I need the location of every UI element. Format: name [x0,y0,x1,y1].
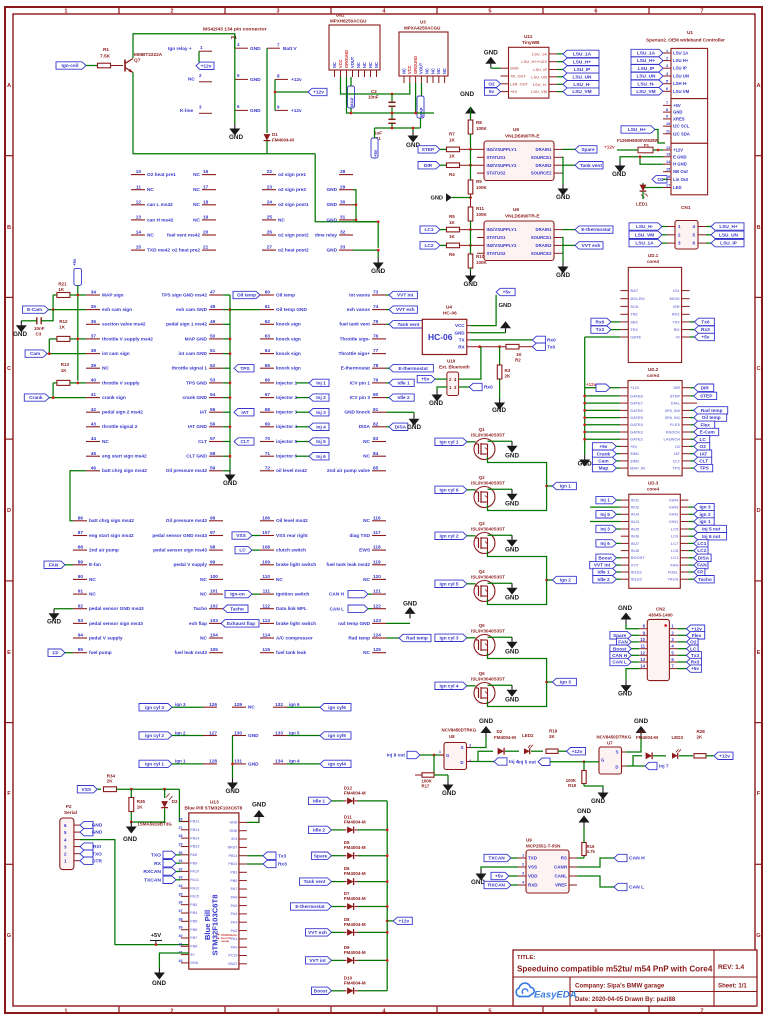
svg-text:Inj 5 out: Inj 5 out [518,760,537,766]
svg-text:Ign relay +: Ign relay + [168,46,192,52]
flag DIR [418,162,440,169]
svg-text:Q6: Q6 [479,671,486,676]
svg-text:NRST: NRST [228,846,239,850]
svg-text:NC: NC [363,439,370,445]
wires U6 sources to gnd [562,238,563,263]
svg-text:Blue Pill STM32F103C6T8: Blue Pill STM32F103C6T8 [185,806,243,812]
svg-text:Ign-coil: Ign-coil [62,63,79,69]
svg-text:2: 2 [170,1008,173,1014]
svg-text:EasyEDA: EasyEDA [534,990,577,1001]
svg-text:UD.3: UD.3 [648,481,659,486]
svg-text:ISL9V3040S3ST: ISL9V3040S3ST [471,629,505,634]
svg-text:TX0: TX0 [672,319,680,324]
svg-text:E-thermostat: E-thermostat [581,227,611,233]
svg-text:PB12: PB12 [190,820,199,824]
svg-text:Lin Out: Lin Out [673,177,689,182]
svg-text:CLT: CLT [198,439,207,445]
svg-text:RXCAN: RXCAN [488,883,505,889]
svg-text:GND: GND [505,501,519,508]
wire R21 left leg [52,295,54,310]
svg-text:LSU_VM: LSU_VM [531,89,548,94]
title block [513,950,757,1006]
svg-text:PB10: PB10 [228,862,237,866]
ground R3 [499,398,501,403]
svg-text:O2: O2 [488,81,495,87]
svg-text:BOOST: BOOST [631,555,646,560]
svg-text:17: 17 [666,183,670,187]
svg-text:LSU 1A: LSU 1A [673,51,688,56]
svg-text:Cam: Cam [598,459,608,465]
svg-text:Tx3: Tx3 [278,853,287,859]
svg-text:GND: GND [248,761,259,767]
svg-text:SE0: SE0 [630,319,638,324]
svg-text:ISL9V3040S3ST: ISL9V3040S3ST [471,527,505,532]
svg-text:STATUS2: STATUS2 [487,171,506,176]
svg-text:CAN H: CAN H [629,856,645,862]
svg-text:PB6: PB6 [190,928,197,932]
svg-text:IGN4: IGN4 [669,498,679,503]
flag 5v U11 [485,88,501,95]
svg-text:Cam: Cam [30,351,40,357]
svg-text:Throttle sign-: Throttle sign- [340,336,371,342]
svg-text:NC: NC [401,68,406,74]
svg-text:GND: GND [92,830,103,836]
svg-text:A: A [7,83,11,89]
svg-text:+12v: +12v [291,77,302,83]
svg-text:Inj 7: Inj 7 [659,764,669,770]
svg-text:ign 2: ign 2 [175,730,186,735]
svg-text:R8: R8 [476,120,482,125]
flag +5v U9 [491,872,509,879]
svg-text:LSH H-: LSH H- [673,81,688,86]
ground rad temp GND row123 [386,622,410,624]
svg-text:R12: R12 [59,319,68,324]
svg-text:ign cyl 2: ign cyl 2 [145,733,164,739]
svg-text:GND: GND [618,691,632,698]
wire Q2 source [488,486,547,511]
svg-text:GATE6: GATE6 [630,408,644,413]
ground CN2 top [625,620,627,625]
svg-text:I2C SDA: I2C SDA [673,131,690,136]
svg-text:34: 34 [178,884,182,888]
svg-text:Rx0: Rx0 [547,338,556,344]
wire Q1 source [488,457,547,486]
svg-text:3: 3 [522,872,524,876]
svg-text:Oil level ms42: Oil level ms42 [276,518,308,524]
svg-text:Inj 1: Inj 1 [600,498,610,504]
ign cyl 3-1 rows [139,704,172,711]
ground U13 bottom [158,968,160,973]
svg-text:3: 3 [276,1008,279,1014]
svg-text:LED: LED [673,185,682,190]
svg-text:CLT: CLT [673,458,681,463]
svg-text:GND: GND [634,718,648,725]
flags CN1 right [706,226,711,228]
flag TPS [234,365,254,372]
ground CN2 bottom [625,681,627,686]
svg-text:GND: GND [250,77,261,83]
svg-text:Oil temp: Oil temp [276,292,295,298]
svg-text:Inj 5: Inj 5 [600,512,610,518]
svg-text:NC: NC [89,577,96,583]
svg-text:27: 27 [178,826,182,830]
ground ign rows [232,778,234,783]
wire Q2 drain to gnd [488,488,513,490]
svg-text:Inj 6: Inj 6 [600,541,610,547]
flag Ign-on row111 [225,590,252,597]
svg-text:REV: 1.4: REV: 1.4 [718,964,745,971]
svg-text:GND: GND [591,798,605,805]
svg-text:TXO: TXO [151,853,161,859]
svg-text:+5V: +5V [673,103,681,108]
svg-text:ign 4: ign 4 [289,759,300,764]
flag TXCAN U9 [484,854,511,861]
svg-text:ignition switch: ignition switch [276,592,309,598]
svg-text:NC: NC [200,592,207,598]
wire R16 to gnd [583,827,585,843]
svg-text:TXCAN: TXCAN [488,856,505,862]
wire gnd bus 47-59 [229,295,231,470]
svg-text:I2C SCL: I2C SCL [673,124,690,129]
svg-text:MAP: MAP [350,97,355,107]
svg-text:ISL9V3040S3ST: ISL9V3040S3ST [471,575,505,580]
svg-text:SOURCE2: SOURCE2 [531,171,552,176]
flags UD3 right [688,506,693,508]
wire Q3 drain to gnd [488,534,513,536]
svg-text:100K: 100K [476,126,488,131]
svg-text:LSU_H-: LSU_H- [573,82,591,88]
svg-text:R13: R13 [61,362,70,367]
svg-text:Tacho: Tacho [698,577,712,583]
svg-text:+12v: +12v [719,753,730,759]
svg-text:HC-06: HC-06 [443,311,457,317]
svg-text:SOURCE1: SOURCE1 [531,155,552,160]
svg-text:injector 2: injector 2 [276,395,297,401]
svg-text:LC2: LC2 [697,548,706,554]
svg-text:7: 7 [700,1008,703,1014]
svg-text:GND: GND [229,821,237,825]
svg-text:NC: NC [188,77,195,83]
svg-text:PC15: PC15 [228,954,237,958]
svg-text:GND: GND [484,50,498,57]
svg-text:E GND: E GND [673,154,687,159]
svg-text:Exhaust flap: Exhaust flap [227,621,255,627]
svg-text:DISA: DISA [359,424,371,430]
svg-text:GND: GND [577,808,591,815]
svg-text:GND: GND [250,46,261,52]
svg-text:injector 5: injector 5 [276,439,297,445]
svg-text:pedal sensor sign ms43: pedal sensor sign ms43 [153,548,207,554]
svg-text:NC: NC [363,518,370,524]
svg-text:+5v: +5v [503,290,511,296]
svg-text:2: 2 [522,863,524,867]
svg-text:INJ1: INJ1 [631,498,640,503]
svg-text:UD.1: UD.1 [648,253,659,258]
svg-text:ICV pin 1: ICV pin 1 [350,380,371,386]
svg-text:SOURCE1: SOURCE1 [531,235,552,240]
svg-text:DTR: DTR [92,858,102,864]
svg-text:Q1: Q1 [479,427,486,432]
wire U13 gnd top right [247,821,259,824]
svg-text:Inj 4: Inj 4 [316,424,326,430]
ground U10 [437,387,447,390]
svg-text:LSU_1A: LSU_1A [573,52,592,58]
svg-text:GND: GND [505,547,519,554]
svg-text:O2: O2 [700,444,707,450]
svg-text:FM4004-M: FM4004-M [344,871,366,876]
svg-text:RX: RX [458,344,464,349]
svg-text:NC: NC [430,68,435,74]
svg-text:Tacho: Tacho [230,606,244,612]
svg-text:PB0: PB0 [230,879,237,883]
svg-text:2K: 2K [505,374,512,379]
svg-text:STEP: STEP [670,393,681,398]
svg-text:ign 3: ign 3 [175,702,186,707]
svg-text:crank GND: crank GND [182,395,207,401]
svg-text:NC: NC [332,62,337,68]
svg-text:dme relay: dme relay [315,232,338,238]
svg-text:GND: GND [252,802,266,809]
svg-text:R6: R6 [449,252,455,257]
svg-text:int vanos: int vanos [349,292,370,298]
CN2 right pins [669,628,677,630]
wire CN2 pin14 to gnd [626,669,639,681]
svg-text:+12v: +12v [604,145,615,151]
svg-text:Oil pressure ms42: Oil pressure ms42 [166,518,208,524]
svg-text:GND: GND [152,980,166,987]
svg-text:HC-06: HC-06 [428,332,453,342]
svg-text:NC: NC [200,635,207,641]
svg-text:NC: NC [363,650,370,656]
svg-text:S: S [616,750,619,755]
svg-text:3P8_IN1: 3P8_IN1 [665,415,681,420]
svg-text:CN1: CN1 [681,205,691,211]
svg-text:ISL9V3040S3ST: ISL9V3040S3ST [471,433,505,438]
resistor R3 2K [499,347,501,365]
svg-text:Serial: Serial [64,810,77,816]
svg-text:o2 sign post2: o2 sign post2 [278,232,309,238]
svg-text:VREF: VREF [555,883,567,888]
svg-text:E-Cam: E-Cam [700,430,715,436]
svg-text:U7: U7 [607,741,613,746]
svg-text:1K: 1K [449,220,456,225]
svg-text:o2 heat pre2: o2 heat pre2 [172,248,200,254]
ground U6 [562,262,564,267]
svg-text:INJ5: INJ5 [631,526,640,531]
svg-text:GND: GND [578,461,592,468]
svg-text:DRAIN2: DRAIN2 [536,163,553,168]
svg-text:pedal V supply: pedal V supply [173,562,207,568]
svg-text:GND: GND [492,407,506,414]
svg-text:injector 6: injector 6 [276,454,297,460]
svg-text:Tx0: Tx0 [547,344,556,350]
svg-text:R9: R9 [476,179,482,184]
svg-text:+12v: +12v [201,63,212,69]
svg-text:fuel pump: fuel pump [89,650,112,656]
flag Tank vent [562,164,575,166]
svg-text:Q2: Q2 [479,475,486,480]
svg-text:GROUND: GROUND [344,50,349,68]
svg-text:FM4004-M: FM4004-M [636,735,658,740]
flag E-Cam [23,306,49,313]
ground list 28-33 [377,258,379,263]
svg-text:VVT int: VVT int [309,958,326,964]
svg-text:D: D [7,508,11,514]
svg-text:+5v: +5v [72,258,77,266]
wires E GND H GND to ground [620,157,663,161]
svg-text:+5: +5 [675,334,680,339]
svg-text:U11: U11 [524,34,533,40]
ground GND knock [386,411,414,413]
svg-text:R2: R2 [515,358,521,363]
svg-text:MOSI: MOSI [670,296,680,301]
U1 mid section [671,99,708,144]
svg-text:TITLE:: TITLE: [517,955,535,961]
flag Idle 1 diode row [309,797,332,804]
svg-text:VNLD5090TR-E: VNLD5090TR-E [505,134,540,140]
svg-text:E-fan: E-fan [89,562,101,568]
svg-text:MPXH6250ACGU: MPXH6250ACGU [330,19,366,24]
svg-text:Q3: Q3 [479,521,486,526]
svg-text:ign cyl 6: ign cyl 6 [439,488,458,494]
svg-text:INJ8: INJ8 [631,548,640,553]
svg-text:pedal sign 1 ms42: pedal sign 1 ms42 [166,322,207,328]
svg-text:R5: R5 [449,214,455,219]
flag Inj 8 out [407,751,420,758]
svg-text:DRAIN1: DRAIN1 [536,147,553,152]
svg-text:VOUT: VOUT [350,56,355,68]
svg-text:pedal sensor GND ms43: pedal sensor GND ms43 [152,533,207,539]
wires UD3 left rows 2-4 [590,506,621,508]
wire +12v bus UD2 [584,337,586,455]
svg-text:GND: GND [505,697,519,704]
svg-text:U4: U4 [446,305,452,311]
svg-text:IN2/VSUPPLY2: IN2/VSUPPLY2 [487,243,517,248]
svg-text:PB13: PB13 [190,828,199,832]
svg-text:35: 35 [178,892,182,896]
svg-text:LSU_H+: LSU_H+ [628,127,647,133]
svg-text:GND: GND [442,790,456,797]
flags CN2 right [677,628,686,630]
svg-text:TXD: TXD [528,856,538,861]
svg-text:E: E [757,650,761,656]
svg-text:GND: GND [407,424,421,431]
svg-text:FAN: FAN [697,563,707,569]
svg-text:ign cyl 1: ign cyl 1 [145,762,164,768]
svg-text:LSU_H-: LSU_H- [636,224,654,230]
svg-text:FM4004-M: FM4004-M [494,735,516,740]
svg-text:R28: R28 [697,729,706,734]
svg-text:FLEX: FLEX [670,422,680,427]
svg-text:GND: GND [223,480,237,487]
svg-text:TX: TX [459,338,465,343]
svg-text:GND: GND [498,303,511,309]
svg-text:3: 3 [276,9,279,15]
svg-text:ICV pin 3: ICV pin 3 [350,395,371,401]
svg-text:PB9: PB9 [190,861,197,865]
svg-text:LC1: LC1 [697,541,706,547]
flag Inj 4 [478,761,494,763]
svg-text:GND: GND [13,331,27,338]
flags Inj 1-6 [296,382,309,384]
svg-text:GATE5: GATE5 [630,415,644,420]
svg-text:GND: GND [612,171,626,178]
svg-text:LSU UN: LSU UN [673,74,689,79]
svg-text:LSU_H+: LSU_H+ [573,59,592,65]
svg-text:LC6: LC6 [671,534,679,539]
svg-text:CN2: CN2 [656,607,666,612]
flag MAP vertical 2 [417,96,424,118]
svg-text:fuel tank vent: fuel tank vent [339,322,370,328]
svg-text:LSU_H+/+12V: LSU_H+/+12V [521,59,547,64]
svg-text:TinyWB: TinyWB [522,40,540,46]
svg-text:GND: GND [556,194,570,201]
svg-text:LSU_UN: LSU_UN [636,74,656,80]
diode D3 TVS [164,789,166,798]
flag E-thermostat U6 [562,229,575,231]
svg-text:R21: R21 [58,282,67,287]
ground above R8 [470,114,472,119]
svg-text:ign cyl 3: ign cyl 3 [145,705,164,711]
flags UD2 right [690,387,694,389]
svg-text:U13: U13 [210,800,219,806]
flag LC2 [420,242,440,249]
svg-text:CLT GND: CLT GND [186,454,207,460]
svg-text:Idle 1: Idle 1 [313,799,326,805]
svg-text:GND: GND [326,217,337,223]
svg-text:I3ATE: I3ATE [630,334,641,339]
svg-text:U3: U3 [420,20,426,25]
svg-text:INJ4: INJ4 [631,519,640,524]
svg-text:KNOCK: KNOCK [666,429,681,434]
flags CN1 left [629,223,662,230]
flag Spare diode row [312,852,332,859]
svg-text:LC7: LC7 [671,541,679,546]
svg-text:C: C [7,366,11,372]
svg-text:GATE4: GATE4 [630,422,644,427]
svg-text:ISR: ISR [673,304,680,309]
svg-text:Date: 2020-04-05 Draw: Date: 2020-04-05 Drawn By: pazi88 [575,996,676,1003]
svg-text:12: 12 [666,146,670,150]
svg-text:SIM1: SIM1 [630,451,640,456]
svg-text:NC: NC [248,705,255,711]
flags P2 [80,821,93,828]
wire to U7 [584,761,599,763]
svg-text:IN2/VSUPPLY2: IN2/VSUPPLY2 [487,163,517,168]
svg-text:PB8: PB8 [190,945,197,949]
svg-text:7.5K: 7.5K [100,54,111,60]
svg-text:eng start sign ms42: eng start sign ms42 [89,533,134,539]
svg-text:UD.2: UD.2 [648,367,659,372]
svg-text:2K: 2K [697,735,704,740]
ground sensors [412,131,414,136]
svg-text:1uF: 1uF [374,131,382,136]
svg-text:FM4004-M: FM4004-M [272,138,294,143]
svg-text:+12v: +12v [398,919,409,925]
U1 lower section [671,143,708,195]
svg-text:+5V: +5V [151,933,162,939]
ground R18 [583,784,585,787]
svg-text:7: 7 [666,101,668,105]
flag RXCAN U9 [484,881,511,888]
wire Q6 drain to gnd [488,684,513,686]
flag E-thermostat diode row [291,903,332,910]
svg-text:GND: GND [505,595,519,602]
svg-text:B: B [756,225,760,231]
svg-text:VBAT: VBAT [228,962,238,966]
flag ign 1 [547,485,553,487]
svg-text:MMBT2222A: MMBT2222A [134,52,163,58]
